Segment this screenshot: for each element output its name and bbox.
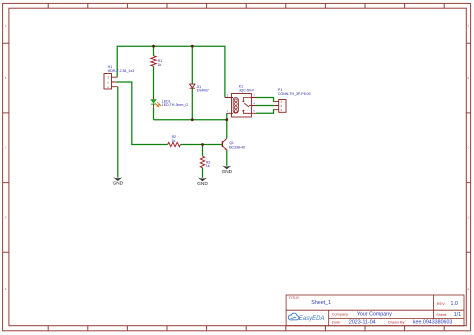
wire: R1 bottom to LED top xyxy=(153,66,155,99)
wire: top rail H1.3 to relay pin2 xyxy=(117,46,225,97)
R2 zigzag body xyxy=(168,142,181,146)
Q1 base bar xyxy=(221,141,223,147)
resistor R1 xyxy=(151,56,162,67)
K1 coil xyxy=(233,98,238,114)
wire: R1 branch upper xyxy=(153,46,155,56)
wire: junction up to relay pin1 xyxy=(226,113,228,119)
resistor R3 xyxy=(200,156,210,168)
ground at R3 xyxy=(197,178,208,186)
EasyEDA logo xyxy=(288,313,324,322)
K1 body outline xyxy=(232,94,252,118)
junction at R2/R3/Q1 base node xyxy=(201,143,204,146)
wire: relay pin5 to P1.3 xyxy=(256,110,274,114)
R3 zigzag body xyxy=(200,156,204,168)
K1 contact pins 3,4,5 xyxy=(251,98,256,114)
svg-text:Q1: Q1 xyxy=(229,141,234,145)
ground arrow symbol xyxy=(198,178,207,182)
wire: junction down to Q1 collector xyxy=(226,120,228,139)
ground at H1 pin1 xyxy=(113,177,124,185)
svg-text:Sheet_1: Sheet_1 xyxy=(311,300,331,306)
resistor R2 xyxy=(168,135,181,147)
wire: D1 bottom xyxy=(191,89,193,120)
H1 pins 3,2,1 xyxy=(112,77,118,87)
svg-text:REV:: REV: xyxy=(437,302,446,306)
K1 pin numbers 2,1,3,4,5 xyxy=(227,94,256,113)
ground arrow symbol xyxy=(113,177,122,181)
svg-text:HDR-F-2.54_1x3: HDR-F-2.54_1x3 xyxy=(108,69,135,73)
Q1 emitter arrow xyxy=(225,148,227,150)
K1 contact leads xyxy=(243,98,251,114)
diode D1 xyxy=(190,84,209,93)
svg-text:GND: GND xyxy=(113,181,124,186)
svg-text:kee.0943380603: kee.0943380603 xyxy=(413,320,453,326)
svg-text:TITLE:: TITLE: xyxy=(289,296,300,300)
D1 cathode bar xyxy=(190,87,195,89)
svg-text:JQC-5V-F: JQC-5V-F xyxy=(239,88,255,92)
wire: R3 bottom to GND xyxy=(202,168,204,178)
junction at relay pin1 / Q1 collector node xyxy=(225,118,228,121)
relay K1 xyxy=(225,84,256,117)
connector H1 xyxy=(104,65,134,89)
svg-text:Date:: Date: xyxy=(332,320,341,324)
wire: R2 to Q1 base xyxy=(180,144,222,146)
svg-text:LED-TH-3mm_G: LED-TH-3mm_G xyxy=(162,103,189,107)
junction at D1 top / +V rail xyxy=(191,45,194,48)
svg-text:Drawn By:: Drawn By: xyxy=(388,321,406,325)
LED LED1 xyxy=(150,97,188,108)
wire: relay pin3 to P1.1 xyxy=(256,98,274,102)
Q1 emitter lead xyxy=(222,146,226,150)
wire: Q1 emitter to GND xyxy=(226,150,228,166)
svg-text:1k: 1k xyxy=(158,63,162,67)
K1 coil pins 2,1 xyxy=(225,98,233,114)
svg-text:GND: GND xyxy=(197,181,208,186)
svg-text:Company:: Company: xyxy=(332,313,349,317)
K1 armature xyxy=(244,103,249,107)
wire: H1.1 down to GND xyxy=(117,87,119,178)
junction at R1 top / +V rail xyxy=(152,45,155,48)
wire: R3 top xyxy=(202,145,204,157)
svg-text:BC338-40: BC338-40 xyxy=(229,145,245,149)
svg-text:EasyEDA: EasyEDA xyxy=(299,316,325,322)
H1 body xyxy=(104,74,112,90)
wire: LED bottom to bottom rail xyxy=(153,108,155,120)
svg-text:2023-11-04: 2023-11-04 xyxy=(349,319,376,325)
svg-text:1k: 1k xyxy=(172,139,176,143)
svg-text:1/1: 1/1 xyxy=(454,312,461,318)
P1 body xyxy=(279,100,286,113)
Q1 collector lead xyxy=(222,138,226,142)
svg-text:1.0: 1.0 xyxy=(451,301,458,307)
svg-text:1N4007: 1N4007 xyxy=(197,89,209,93)
K1 NC contact dot xyxy=(242,110,244,112)
svg-text:Sheet:: Sheet: xyxy=(436,313,447,317)
LED1 pins xyxy=(153,97,155,108)
wire: bottom rail xyxy=(154,119,227,121)
ground at Q1 emitter xyxy=(222,166,233,174)
D1 triangle xyxy=(190,84,195,88)
ground arrow symbol xyxy=(222,166,231,170)
svg-text:Your Company: Your Company xyxy=(357,312,392,318)
svg-text:CONN-TH_3P-P5.00: CONN-TH_3P-P5.00 xyxy=(278,92,311,96)
wire: D1 branch upper xyxy=(191,46,193,84)
K1 NO contact dot xyxy=(242,100,244,102)
LED1 emission arrows xyxy=(155,102,161,107)
transistor Q1 xyxy=(222,138,245,150)
connector P1 xyxy=(274,88,310,112)
P1 pin numbers 1,2,3 xyxy=(280,100,282,112)
LED1 cathode bar xyxy=(151,103,156,105)
wire: relay pin4 to P1.2 xyxy=(256,105,274,107)
wire: H1.2 to R2 xyxy=(117,82,168,145)
R1 zigzag body xyxy=(151,56,156,66)
LED1 triangle anode xyxy=(150,99,157,103)
svg-text:GND: GND xyxy=(222,169,233,174)
junction at D1 bottom rail xyxy=(191,118,194,121)
H1 pin numbers 3,2,1 xyxy=(107,76,109,90)
P1 pins 1,2,3 xyxy=(274,101,279,109)
svg-text:1k: 1k xyxy=(206,164,210,168)
